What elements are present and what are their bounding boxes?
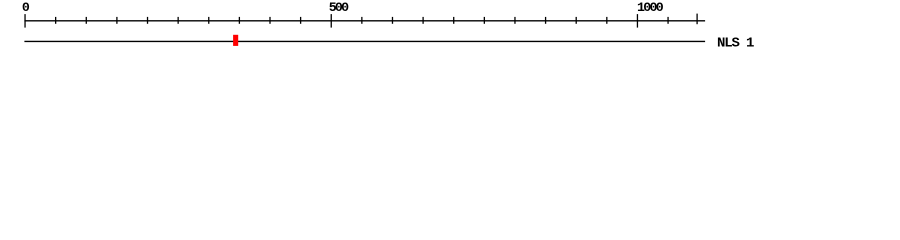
minor tick 650 xyxy=(422,17,424,24)
svg-text:NLS 1: NLS 1 xyxy=(717,36,754,52)
minor tick 550 xyxy=(361,17,363,24)
major tick 1000 xyxy=(636,14,638,28)
ruler baseline xyxy=(24,20,705,22)
svg-text:1000: 1000 xyxy=(637,0,664,15)
feature line NLS track xyxy=(24,40,705,42)
minor tick 850 xyxy=(545,17,547,24)
svg-text:500: 500 xyxy=(329,0,349,15)
minor tick 1050 xyxy=(667,17,669,24)
minor tick 350 xyxy=(238,17,240,24)
minor tick 150 xyxy=(116,17,118,24)
minor tick 800 xyxy=(514,17,516,24)
red feature box NLS xyxy=(233,35,238,46)
minor tick 100 xyxy=(85,17,87,24)
minor tick 750 xyxy=(483,17,485,24)
minor tick 400 xyxy=(269,17,271,24)
minor tick 250 xyxy=(177,17,179,24)
svg-text:0: 0 xyxy=(22,0,30,15)
major tick 0 xyxy=(24,14,26,28)
minor tick 450 xyxy=(300,17,302,24)
minor tick 950 xyxy=(606,17,608,24)
minor tick 700 xyxy=(453,17,455,24)
minor tick 600 xyxy=(391,17,393,24)
minor tick 900 xyxy=(575,17,577,24)
minor tick 50 xyxy=(55,17,57,24)
minor tick 200 xyxy=(147,17,149,24)
major tick 500 xyxy=(330,14,332,28)
minor tick 300 xyxy=(208,17,210,24)
end cross tick xyxy=(696,14,698,25)
